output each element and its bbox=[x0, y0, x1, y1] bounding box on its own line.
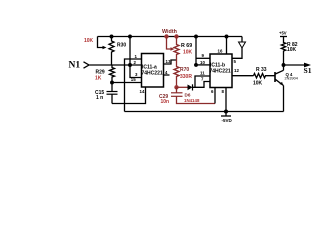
potentiometer R30 wiper loop bbox=[98, 37, 104, 48]
resistor R70 bbox=[174, 60, 179, 87]
svg-text:74HC221: 74HC221 bbox=[142, 71, 163, 77]
wire pin 10 bbox=[196, 64, 210, 66]
node red R70-C29-D6 bbox=[174, 85, 178, 89]
svg-text:R 33: R 33 bbox=[256, 67, 267, 73]
wire pin 11 bbox=[195, 76, 210, 87]
node collector-R82 bbox=[282, 63, 286, 67]
ground bbox=[241, 37, 243, 43]
node N1-pin3 bbox=[128, 63, 132, 67]
wire pin 1 to bottom rail bbox=[125, 59, 142, 112]
svg-text:R30: R30 bbox=[117, 43, 126, 49]
svg-text:13: 13 bbox=[166, 59, 171, 64]
transistor Q4 2N3904 bbox=[274, 72, 276, 82]
node R29-C15 bbox=[110, 81, 114, 85]
svg-text:10K: 10K bbox=[183, 50, 193, 56]
svg-text:R 69: R 69 bbox=[181, 43, 192, 49]
wire pin 13 to R70 top bbox=[164, 60, 177, 64]
svg-text:16: 16 bbox=[218, 49, 223, 54]
resistor R82 bbox=[281, 37, 285, 66]
wire D6 to pin 7 bbox=[193, 82, 211, 88]
wire pin 16 bbox=[226, 37, 228, 55]
svg-text:R70: R70 bbox=[180, 67, 189, 73]
resistor R30 bbox=[109, 37, 114, 66]
svg-text:1K: 1K bbox=[95, 76, 102, 82]
wire pin 8 to rail bbox=[225, 88, 227, 112]
wire rail to pins 9/10 bbox=[195, 37, 197, 65]
wire C29 to pin 6 bbox=[177, 96, 216, 103]
IC IC11-b 74HC221 (monostable) bbox=[210, 54, 232, 88]
svg-text:15: 15 bbox=[131, 77, 136, 82]
wire rail to N1 wire bbox=[129, 37, 131, 66]
svg-text:10K: 10K bbox=[287, 47, 297, 53]
svg-text:N1: N1 bbox=[69, 61, 81, 71]
wire bottom rail -5VD bbox=[125, 111, 284, 113]
wire collector up bbox=[283, 65, 285, 70]
svg-text:10n: 10n bbox=[161, 99, 170, 105]
svg-text:12: 12 bbox=[234, 68, 239, 73]
svg-text:1N4148: 1N4148 bbox=[184, 98, 200, 103]
resistor R33 bbox=[254, 74, 276, 78]
svg-text:330R: 330R bbox=[180, 74, 192, 80]
svg-text:74HC221: 74HC221 bbox=[210, 69, 231, 75]
node rail-R30 bbox=[110, 35, 114, 39]
power -5VD bbox=[225, 112, 227, 117]
capacitor C29 bbox=[176, 87, 178, 93]
capacitor C15 bbox=[111, 83, 113, 92]
wire top rail bbox=[98, 36, 243, 38]
svg-text:+5V: +5V bbox=[279, 31, 287, 36]
port S1 arrow bbox=[284, 64, 305, 66]
wire pin 12 to R33 bbox=[232, 75, 254, 77]
node -5VD bbox=[224, 110, 228, 114]
node rail-pin16 bbox=[225, 35, 229, 39]
svg-text:14: 14 bbox=[140, 89, 145, 94]
node red left bbox=[164, 34, 168, 38]
node rail-pin2 bbox=[128, 35, 132, 39]
wire gnd to pin 5 bbox=[232, 48, 242, 58]
resistor R29 bbox=[110, 65, 115, 83]
wire N1 to pin 2 bbox=[90, 64, 142, 66]
wire pin 9 bbox=[196, 57, 210, 59]
svg-text:Width: Width bbox=[162, 29, 177, 35]
svg-text:S1: S1 bbox=[304, 66, 312, 75]
wire pin 4 stub bbox=[164, 74, 170, 76]
svg-text:1 n: 1 n bbox=[96, 95, 103, 101]
svg-text:10K: 10K bbox=[84, 38, 94, 44]
svg-text:2N3904: 2N3904 bbox=[285, 77, 298, 81]
IC IC11-a 74HC221 (monostable) bbox=[142, 54, 164, 88]
node rail-195 bbox=[194, 35, 198, 39]
svg-text:10: 10 bbox=[200, 60, 205, 65]
node red right bbox=[174, 34, 178, 38]
svg-text:11: 11 bbox=[200, 71, 205, 76]
svg-text:10K: 10K bbox=[253, 81, 263, 87]
diode D6 1N4148 bbox=[177, 86, 188, 88]
wire pin 3 jog bbox=[130, 65, 142, 78]
potentiometer R69 bbox=[167, 37, 172, 50]
svg-text:D6: D6 bbox=[185, 93, 191, 98]
power +5V bbox=[280, 36, 287, 38]
svg-text:-5VD: -5VD bbox=[222, 118, 233, 123]
wire emitter down bbox=[283, 86, 285, 112]
node pin10 bbox=[194, 63, 198, 67]
wire C15 to pin 14 bbox=[112, 87, 146, 104]
wire pin 15 bbox=[112, 82, 142, 84]
